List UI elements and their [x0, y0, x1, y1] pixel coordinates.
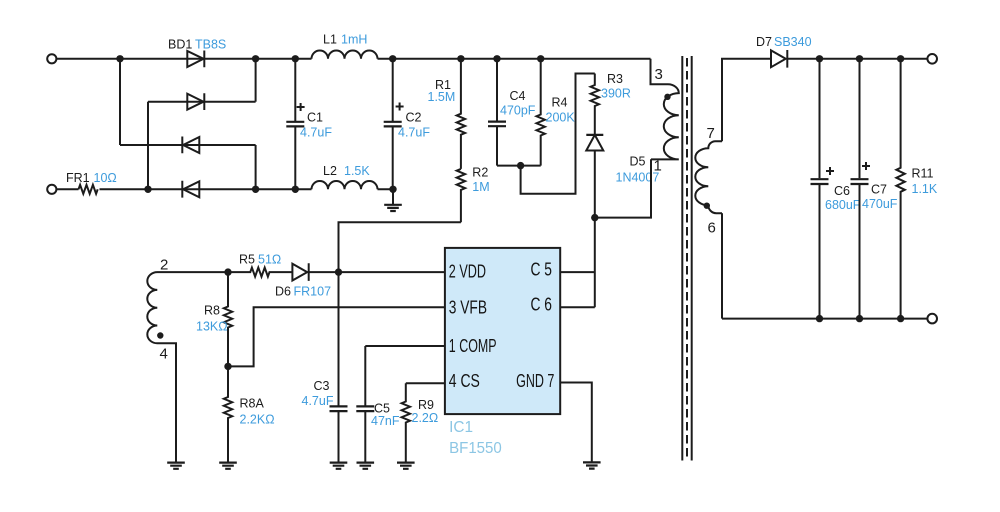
svg-text:4.7uF: 4.7uF	[300, 126, 332, 140]
svg-text:4: 4	[160, 346, 168, 363]
svg-text:10Ω: 10Ω	[94, 171, 117, 185]
capacitor C7	[851, 59, 869, 319]
wire bottom rail	[100, 188, 394, 190]
capacitor C1	[286, 59, 304, 190]
label R2	[472, 166, 488, 180]
value 390R	[601, 87, 631, 101]
node C1 top	[292, 55, 299, 62]
value 1.1K	[912, 182, 938, 196]
resistor R8	[224, 272, 232, 366]
value C1 4.7uF	[300, 126, 332, 140]
svg-text:390R: 390R	[601, 87, 631, 101]
svg-text:1.5K: 1.5K	[344, 164, 370, 178]
node snubber junction	[517, 162, 524, 169]
label R1	[435, 78, 451, 92]
node R8/R8A junction	[224, 363, 231, 370]
wire bridge row b	[148, 101, 256, 103]
pin label C 5	[531, 259, 553, 280]
label FR1	[66, 171, 90, 185]
svg-text:2 VDD: 2 VDD	[449, 261, 486, 282]
wire input bottom to FR1	[56, 188, 78, 190]
node top-left junction	[116, 55, 123, 62]
svg-text:R9: R9	[418, 398, 434, 412]
svg-text:SB340: SB340	[774, 35, 812, 49]
svg-text:470uF: 470uF	[862, 197, 898, 211]
label IC1	[449, 419, 473, 436]
value TB8S	[195, 38, 226, 52]
svg-text:C6: C6	[834, 184, 850, 198]
wire COMP row	[365, 345, 445, 347]
value 51R	[258, 253, 281, 267]
svg-text:2.2KΩ: 2.2KΩ	[240, 413, 275, 427]
svg-text:R2: R2	[472, 166, 488, 180]
svg-text:3 VFB: 3 VFB	[449, 297, 487, 318]
svg-text:47nF: 47nF	[371, 414, 400, 428]
label pin 2	[160, 257, 168, 274]
node C6 bottom	[816, 315, 823, 322]
label pin 6	[708, 220, 716, 237]
pin label 2 VDD	[449, 261, 486, 282]
svg-text:2.2Ω: 2.2Ω	[412, 411, 439, 425]
svg-text:R5: R5	[239, 253, 255, 267]
value 470uF	[862, 197, 898, 211]
transformer secondary winding	[695, 141, 722, 213]
label pin 3	[655, 66, 663, 83]
svg-text:1: 1	[654, 158, 662, 175]
value 2.2R	[412, 411, 439, 425]
svg-text:200K: 200K	[546, 111, 576, 125]
value C3 4.7uF	[302, 394, 334, 408]
label BD1	[168, 38, 192, 52]
input terminal top (L)	[47, 54, 56, 63]
svg-text:C 6: C 6	[531, 294, 553, 315]
resistor R5	[228, 268, 292, 277]
phase dot primary	[664, 94, 670, 100]
svg-text:470pF: 470pF	[500, 104, 536, 118]
svg-text:1.1K: 1.1K	[912, 182, 938, 196]
diode D7	[771, 50, 787, 68]
resistor R1	[457, 59, 465, 169]
wire output top rail	[787, 58, 927, 60]
label R4	[552, 96, 568, 110]
svg-text:13KΩ: 13KΩ	[196, 320, 228, 334]
label C3	[314, 379, 330, 393]
svg-text:L2: L2	[323, 164, 337, 178]
bridge BD1 diode b	[187, 93, 204, 110]
node C6 top	[816, 55, 823, 62]
label R9	[418, 398, 434, 412]
node C2 top	[389, 55, 396, 62]
transformer primary winding	[651, 84, 679, 159]
svg-text:IC1: IC1	[449, 419, 473, 436]
svg-text:2: 2	[160, 257, 168, 274]
value 10R	[94, 171, 117, 185]
wire secondary pin7 to D7	[722, 59, 771, 141]
node R11 bottom	[897, 315, 904, 322]
svg-text:TB8S: TB8S	[195, 38, 226, 52]
ground after L2/C2	[384, 189, 402, 211]
label L1	[323, 33, 337, 47]
resistor R3	[591, 74, 599, 135]
value 1mH	[341, 33, 367, 47]
svg-text:FR1: FR1	[66, 171, 90, 185]
aux winding (pins 2/4)	[147, 272, 228, 463]
ground GND7	[583, 462, 601, 468]
label C4	[510, 89, 526, 103]
value C2 4.7uF	[398, 126, 430, 140]
pin label GND 7	[516, 370, 554, 391]
svg-text:R4: R4	[552, 96, 568, 110]
output terminal bottom	[927, 314, 937, 324]
node C7 bottom	[856, 315, 863, 322]
plus sign C1	[297, 103, 305, 111]
wire D6 to VDD pin	[309, 271, 445, 273]
value 2.2KOhm	[240, 413, 275, 427]
wire output bottom rail	[722, 318, 928, 320]
capacitor C6	[811, 59, 829, 319]
value FR107	[294, 285, 332, 299]
label C1	[307, 111, 323, 125]
svg-text:680uF: 680uF	[825, 198, 861, 212]
label D5	[630, 155, 646, 169]
wire C5 pin to drain	[560, 271, 595, 273]
svg-text:1 COMP: 1 COMP	[449, 335, 497, 356]
op-amp U1 / IC1 BF1550 body	[445, 248, 560, 414]
pin label 4 CS	[449, 370, 480, 391]
value 680uF	[825, 198, 861, 212]
svg-text:R11: R11	[912, 167, 934, 181]
value 1N4007	[616, 171, 660, 185]
node C7 top	[856, 55, 863, 62]
svg-text:C2: C2	[406, 111, 422, 125]
node VDD junction	[335, 268, 342, 275]
node bridge+ junction	[252, 55, 259, 62]
transformer core	[682, 56, 691, 461]
svg-text:D7: D7	[756, 35, 772, 49]
svg-text:C3: C3	[314, 379, 330, 393]
value 470pF	[500, 104, 536, 118]
value SB340	[774, 35, 812, 49]
diode D5	[586, 135, 603, 218]
ground C5	[357, 463, 375, 469]
node D5 anode junction	[591, 214, 598, 221]
resistor FR1	[79, 185, 98, 194]
node R1 top	[457, 55, 464, 62]
ground R9	[397, 463, 415, 469]
wire snubber route to R3	[521, 74, 595, 194]
svg-text:1M: 1M	[472, 180, 489, 194]
svg-text:1.5M: 1.5M	[428, 90, 456, 104]
label C5	[374, 402, 390, 416]
label D7	[756, 35, 772, 49]
svg-text:C1: C1	[307, 111, 323, 125]
capacitor C3	[330, 272, 348, 463]
bridge BD1 diode d (bottom)	[182, 181, 199, 198]
label R3	[607, 72, 623, 86]
wire drain node to primary pin1	[595, 159, 651, 217]
capacitor C4	[488, 59, 506, 166]
svg-text:D5: D5	[630, 155, 646, 169]
value 1.5M	[428, 90, 456, 104]
wire bridge right vertical upper	[255, 59, 257, 102]
capacitor C5	[356, 346, 374, 463]
svg-text:L1: L1	[323, 33, 337, 47]
node bridge- bottom	[252, 186, 259, 193]
svg-text:4 CS: 4 CS	[449, 370, 480, 391]
svg-text:C 5: C 5	[531, 259, 553, 280]
svg-text:7: 7	[707, 125, 715, 142]
label R8	[204, 304, 220, 318]
resistor R11	[896, 59, 904, 319]
pin label 3 VFB	[449, 297, 487, 318]
wire R8 junction to VFB	[228, 307, 445, 366]
ground C3	[330, 463, 348, 469]
pin label C 6	[531, 294, 553, 315]
pin label 1 COMP	[449, 335, 497, 356]
wire bridge left vertical	[119, 59, 121, 145]
label pin 7	[707, 125, 715, 142]
label D6	[275, 285, 291, 299]
svg-text:51Ω: 51Ω	[258, 253, 281, 267]
wire C4/R4 bottom bus	[497, 165, 541, 167]
plus sign C6	[826, 167, 834, 175]
node aux/R5 junction	[224, 268, 231, 275]
ground aux pin4	[167, 463, 185, 469]
wire drain node down to IC	[594, 218, 596, 308]
label pin 1	[654, 158, 662, 175]
wire CS row	[406, 382, 445, 384]
svg-text:4.7uF: 4.7uF	[302, 394, 334, 408]
svg-text:D6: D6	[275, 285, 291, 299]
node C2 bottom	[389, 186, 396, 193]
svg-text:1mH: 1mH	[341, 33, 367, 47]
value 200K	[546, 111, 576, 125]
svg-text:3: 3	[655, 66, 663, 83]
svg-text:FR107: FR107	[294, 285, 332, 299]
value BF1550	[449, 440, 502, 457]
resistor R9	[402, 383, 410, 462]
output terminal top	[927, 54, 937, 64]
plus sign C2	[396, 103, 404, 111]
wire secondary pin6 down	[721, 213, 723, 318]
inductor L1	[312, 51, 378, 59]
svg-text:R8A: R8A	[240, 397, 265, 411]
node R4 top	[537, 55, 544, 62]
label C7	[871, 183, 887, 197]
plus sign C7	[862, 162, 870, 170]
value 13KOhm	[196, 320, 228, 334]
node C1 bottom	[292, 186, 299, 193]
svg-text:R3: R3	[607, 72, 623, 86]
wire bridge row c	[120, 144, 256, 146]
label R11	[912, 167, 934, 181]
svg-text:GND 7: GND 7	[516, 370, 554, 391]
wire bridge right vertical lower	[255, 145, 257, 189]
label R8A	[240, 397, 265, 411]
resistor R4	[537, 59, 545, 166]
label C6	[834, 184, 850, 198]
ground R8A	[219, 463, 237, 469]
wire top rail to primary pin3	[651, 59, 669, 85]
svg-text:BF1550: BF1550	[449, 440, 502, 457]
value 47nF	[371, 414, 400, 428]
wire GND pin	[560, 383, 592, 463]
capacitor C2	[384, 59, 402, 190]
wire bridge mid vertical	[147, 102, 149, 190]
value 1.5K	[344, 164, 370, 178]
diode D6	[292, 263, 308, 281]
bridge BD1 diode c	[182, 137, 199, 154]
node R11 top	[897, 55, 904, 62]
wire AC top rail	[56, 58, 650, 60]
label L2	[323, 164, 337, 178]
phase dot secondary	[704, 203, 710, 209]
svg-text:C4: C4	[510, 89, 526, 103]
inductor L2	[312, 181, 378, 189]
resistor R8A	[224, 366, 232, 462]
svg-text:4.7uF: 4.7uF	[398, 126, 430, 140]
bridge BD1 diode a (top)	[187, 51, 204, 68]
value 1M	[472, 180, 489, 194]
resistor R2	[457, 169, 465, 222]
node bridge mid bottom	[144, 186, 151, 193]
wire R2 to VDD node	[339, 222, 461, 272]
wire C6 pin to drain	[560, 306, 595, 308]
input terminal bottom (N)	[47, 185, 56, 194]
node C4 top	[493, 55, 500, 62]
label C2	[406, 111, 422, 125]
svg-text:6: 6	[708, 220, 716, 237]
phase dot aux	[157, 332, 163, 338]
svg-text:R8: R8	[204, 304, 220, 318]
svg-text:C7: C7	[871, 183, 887, 197]
label pin 4	[160, 346, 168, 363]
svg-text:BD1: BD1	[168, 38, 192, 52]
label R5	[239, 253, 255, 267]
